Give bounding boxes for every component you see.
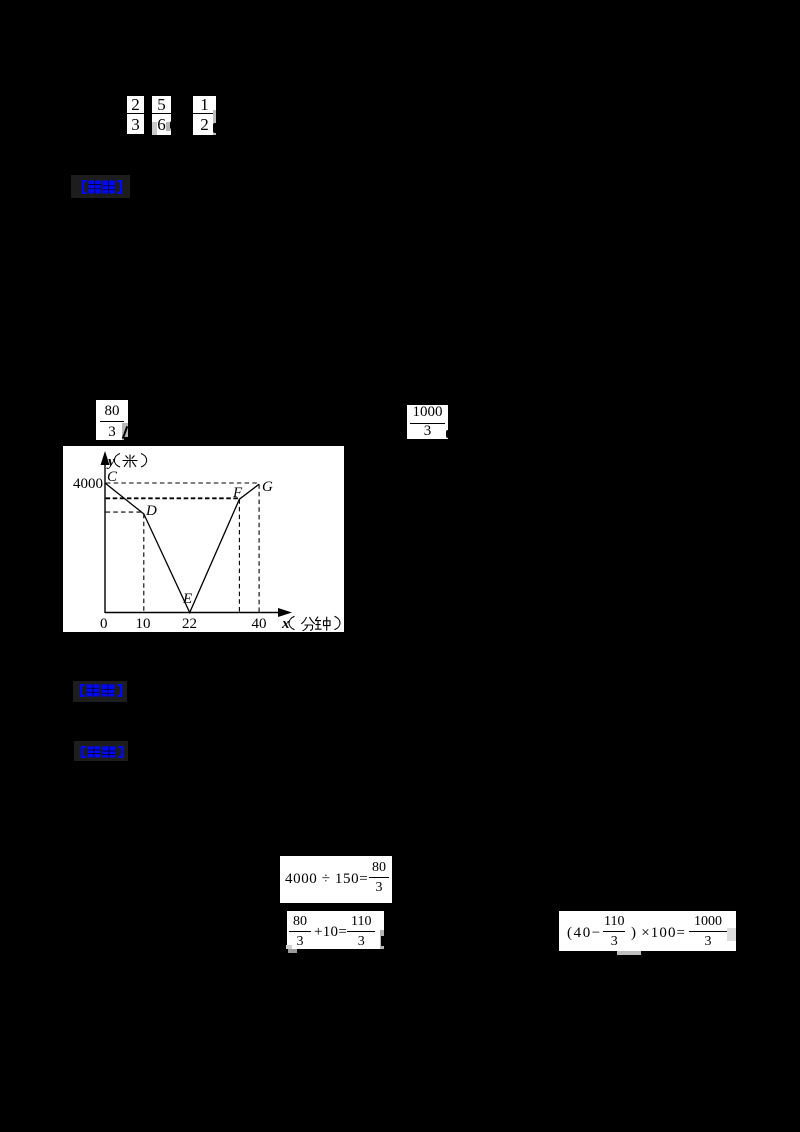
y-axis <box>104 462 106 613</box>
svg-text:E: E <box>182 591 192 607</box>
gray artifact inside right edge <box>727 928 736 941</box>
dashed vertical G <box>258 484 260 612</box>
ghost notch right of formula 2 <box>381 936 384 946</box>
dashed vertical F <box>238 499 240 612</box>
svg-text:C: C <box>107 469 118 485</box>
svg-text:G: G <box>262 479 273 495</box>
svg-text:40: 40 <box>252 616 267 632</box>
comma after 2/3 <box>144 124 149 133</box>
fraction image 2/3 <box>127 96 144 134</box>
gray artifact bottom-left of 5/6 <box>152 122 157 135</box>
fraction image 1/2 <box>193 96 216 135</box>
ghost slash right of 80/3 <box>121 426 127 439</box>
svg-text:F: F <box>232 485 243 501</box>
dashed level 4000 to G <box>106 482 259 484</box>
x-axis <box>105 612 281 614</box>
answer label 3 blue text <box>79 746 125 758</box>
gray artifact bottom of formula 3 <box>617 951 641 955</box>
分 <box>301 617 315 631</box>
dashed level D <box>106 511 144 513</box>
formula image 4000/150=80/3 <box>280 856 392 903</box>
answer label 3 highlighted background <box>74 741 128 761</box>
fraction image 80/3 <box>96 400 128 440</box>
answer label 2 highlighted background <box>73 681 127 702</box>
answer label 1 blue text <box>80 180 124 194</box>
label (分钟) <box>289 616 340 631</box>
answer label 2 blue text <box>78 684 124 697</box>
formula image 80/3+10=110/3 <box>287 911 384 949</box>
gray artifact right column of formula 2 <box>380 930 385 949</box>
svg-text:4000: 4000 <box>73 476 103 492</box>
comma after 1/2 <box>213 123 218 133</box>
svg-text:D: D <box>145 503 157 519</box>
dashed level F <box>106 497 240 499</box>
钟 <box>315 617 330 631</box>
gray artifact right column of 1/2 <box>213 110 217 135</box>
dashed vertical D <box>143 514 145 612</box>
gray artifact bottom-right of 5/6 <box>166 122 171 131</box>
comma after 1000/3 <box>446 430 450 438</box>
gray artifact bottom-left of formula 2 <box>286 945 292 949</box>
fraction image 5/6 <box>152 96 171 135</box>
fraction image 1000/3 <box>407 405 448 439</box>
answer label 1 highlighted background <box>71 175 130 198</box>
curve C-D-E-F-G <box>105 483 259 613</box>
label (米) <box>114 454 146 468</box>
svg-text:22: 22 <box>182 616 197 632</box>
svg-text:10: 10 <box>136 616 151 632</box>
comma after 5/6 <box>170 121 177 129</box>
svg-text:y: y <box>106 454 115 470</box>
graph figure white box <box>63 446 344 632</box>
svg-text:0: 0 <box>100 616 108 632</box>
formula image (40-110/3)x100=1000/3 <box>559 911 736 951</box>
gray artifact right of 80/3 <box>122 423 128 440</box>
